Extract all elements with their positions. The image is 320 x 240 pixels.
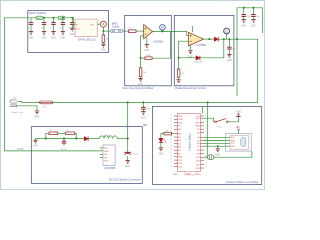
- svg-text:ON: ON: [104, 154, 108, 156]
- svg-text:LM358: LM358: [153, 40, 163, 44]
- capacitor C9: [141, 102, 152, 111]
- svg-text:GND: GND: [176, 85, 181, 87]
- node cap junction: [228, 38, 230, 40]
- svg-text:GND: GND: [51, 38, 56, 40]
- wire branch up left: [46, 133, 49, 138]
- svg-text:GND: GND: [227, 60, 232, 62]
- ground C3: [51, 32, 56, 40]
- op-amp U3 regulator IC: [103, 145, 115, 165]
- svg-text:DC-DC Buck Converter: DC-DC Buck Converter: [109, 178, 141, 182]
- svg-text:100n: 100n: [246, 16, 252, 18]
- connector J1 BNC: [111, 29, 123, 32]
- svg-text:24.5V: 24.5V: [17, 147, 24, 151]
- junction C2: [43, 17, 45, 19]
- svg-text:GND: GND: [138, 84, 143, 86]
- svg-text:5V: 5V: [143, 123, 147, 127]
- svg-text:26: 26: [170, 128, 172, 130]
- wire inverting input down: [141, 36, 144, 58]
- wire node1 node2: [46, 138, 84, 140]
- capacitor C7: [242, 8, 253, 20]
- power +5V flag: [235, 127, 240, 134]
- node out junction: [208, 38, 210, 40]
- svg-text:GND: GND: [231, 146, 236, 148]
- svg-text:18: 18: [170, 155, 172, 157]
- wire U2B out: [204, 38, 215, 40]
- wire R3 down: [140, 58, 142, 68]
- svg-text:SCL: SCL: [231, 137, 235, 139]
- svg-text:GND: GND: [174, 174, 179, 176]
- wire L1 to node3: [117, 138, 128, 140]
- fuse F1: [40, 101, 53, 109]
- node vin junction: [207, 101, 209, 103]
- wire node to R term: [102, 31, 104, 35]
- wire switch to gnd: [228, 116, 238, 121]
- wire D1 to node C: [218, 38, 237, 40]
- wire U1 pin2: [74, 28, 76, 30]
- svg-text:Non-Inverting Amplifier: Non-Inverting Amplifier: [122, 86, 153, 90]
- svg-text:12: 12: [205, 152, 207, 154]
- capacitor C5: [69, 18, 75, 30]
- U4 top pin stub: [201, 107, 203, 114]
- wire R4 to gnd: [178, 77, 180, 80]
- svg-text:GND: GND: [125, 166, 130, 168]
- svg-text:16: 16: [170, 162, 172, 164]
- ground D4: [158, 148, 163, 156]
- svg-text:1N4148: 1N4148: [194, 62, 202, 64]
- svg-text:22: 22: [170, 142, 172, 144]
- node feedback junction: [223, 38, 225, 40]
- page frame: [0, 0, 264, 189]
- node1 junction: [45, 138, 47, 140]
- resistor R5: [49, 130, 58, 134]
- svg-text:RST: RST: [178, 122, 183, 124]
- ground J2: [34, 111, 39, 119]
- node oled gnd junction: [217, 145, 219, 147]
- wire VCC rail: [4, 18, 73, 151]
- inductor FB1: [36, 16, 43, 20]
- svg-text:REF: REF: [178, 157, 183, 159]
- svg-text:100uH: 100uH: [103, 135, 110, 137]
- wire feedback down: [201, 39, 224, 58]
- wire amp out to peak block: [171, 30, 187, 32]
- block: Arduino micro-controller group: [152, 107, 261, 185]
- node rail junction: [236, 38, 238, 40]
- wire LED to gnd: [160, 142, 162, 148]
- capacitor C3: [50, 18, 56, 32]
- svg-text:19: 19: [170, 152, 172, 154]
- svg-text:M.S.: M.S.: [218, 126, 223, 128]
- node cap8 junction: [253, 7, 255, 9]
- svg-text:100n: 100n: [146, 108, 152, 110]
- ground SW1 inverted: [236, 111, 241, 116]
- svg-text:1: 1: [205, 115, 206, 117]
- wire oled gnd: [204, 145, 230, 147]
- svg-text:16: 16: [205, 167, 207, 169]
- svg-text:24: 24: [170, 136, 172, 138]
- svg-text:20: 20: [170, 149, 172, 151]
- resistor R1: [129, 28, 137, 32]
- wire 9V top rail: [237, 8, 263, 39]
- node cap7 junction: [243, 7, 245, 9]
- svg-text:Barrel_Jack: Barrel_Jack: [12, 111, 24, 114]
- wire R1 to op-amp: [136, 30, 144, 32]
- LED D4: [159, 138, 167, 143]
- svg-text:GND: GND: [60, 38, 65, 40]
- block: peak-detecting circuit group: [174, 15, 234, 85]
- svg-text:15: 15: [205, 163, 207, 165]
- capacitor C2: [41, 18, 47, 32]
- svg-text:EPM 2062S: EPM 2062S: [29, 11, 46, 15]
- capacitor C8: [251, 8, 260, 20]
- wire op-amp V- stub: [146, 37, 148, 44]
- wire U3 pin1 stub: [100, 147, 103, 149]
- junction C4: [62, 17, 64, 19]
- capacitor C10: [60, 139, 67, 151]
- svg-text:LM358: LM358: [196, 43, 206, 47]
- connector J2 barrel jack: [10, 100, 20, 107]
- wire BNC to amp block: [123, 30, 129, 32]
- label U4 pin names right: [195, 116, 200, 170]
- node buck tap: [127, 101, 129, 103]
- wire vin node1: [36, 138, 46, 140]
- svg-text:GND: GND: [215, 154, 220, 156]
- capacitor C4: [60, 18, 66, 32]
- label U4 pin numbers: [170, 115, 206, 169]
- capacitor C11 polarized: [125, 152, 139, 160]
- svg-text:Fuse: Fuse: [42, 107, 48, 109]
- svg-text:GND: GND: [178, 119, 183, 121]
- ground C5: [70, 28, 75, 36]
- node buzzer junction: [207, 156, 209, 158]
- ground C4: [60, 32, 65, 40]
- svg-text:6: 6: [205, 131, 206, 133]
- svg-text:Arduino Micro-controller: Arduino Micro-controller: [226, 180, 259, 184]
- node2 junction: [75, 138, 77, 140]
- wire oled vcc: [204, 142, 230, 144]
- label U4 pin names left: [178, 116, 183, 169]
- svg-text:27: 27: [170, 125, 172, 127]
- block: radar module group: [28, 11, 109, 53]
- svg-text:28: 28: [170, 121, 172, 123]
- inductor FB2: [58, 16, 65, 20]
- wire node3 down to C11: [127, 139, 129, 153]
- svg-text:470uF: 470uF: [132, 153, 139, 155]
- ground C2: [41, 32, 46, 40]
- ground C9: [141, 112, 146, 120]
- probe B circle: [160, 25, 166, 32]
- ground U2A: [144, 45, 149, 53]
- svg-text:GND: GND: [241, 25, 246, 27]
- svg-text:100uF: 100uF: [60, 149, 67, 151]
- svg-text:30: 30: [170, 115, 172, 117]
- wire feedback loop: [152, 31, 170, 58]
- svg-text:3: 3: [205, 121, 206, 123]
- wire D2 to left column: [179, 57, 196, 59]
- inductor L1: [100, 135, 118, 139]
- svg-text:GND: GND: [141, 117, 146, 119]
- ground R3: [138, 78, 143, 85]
- resistor R6: [66, 130, 75, 134]
- op-amp U2B LM358: [189, 32, 204, 46]
- svg-text:4: 4: [205, 125, 206, 127]
- capacitor C6 hold: [227, 39, 236, 54]
- U4 pin stubs left: [174, 116, 178, 167]
- ground OLED: [215, 146, 220, 156]
- resistor R3: [139, 68, 147, 77]
- svg-text:VIN: VIN: [104, 148, 108, 150]
- junction C5: [71, 17, 73, 19]
- wire U3 pin4 stub: [100, 157, 103, 159]
- svg-text:GND: GND: [70, 34, 75, 36]
- svg-text:GND: GND: [41, 38, 46, 40]
- svg-text:11: 11: [205, 149, 207, 151]
- wire meter to node: [102, 27, 104, 31]
- diode D3: [84, 136, 88, 141]
- svg-text:Cable: Cable: [112, 24, 120, 28]
- svg-text:EPM_6012S: EPM_6012S: [78, 38, 95, 42]
- svg-text:1M: 1M: [181, 73, 184, 75]
- ground VIN: [33, 139, 38, 148]
- wire right edge drop: [208, 39, 258, 102]
- svg-text:OUT: OUT: [104, 161, 109, 163]
- U4 pin stubs right: [201, 116, 205, 168]
- svg-text:LM2596: LM2596: [104, 166, 115, 170]
- node bias junction: [178, 57, 180, 59]
- block: non-inverting amplifier group: [125, 15, 172, 85]
- node cap9 tap: [142, 101, 144, 103]
- node3 junction: [127, 138, 129, 140]
- svg-text:17: 17: [170, 159, 172, 161]
- resistor R term: [102, 35, 109, 42]
- svg-text:GND: GND: [158, 154, 163, 156]
- wire branch down right: [75, 133, 76, 138]
- wire U3 pin3 stub: [100, 153, 103, 155]
- svg-text:GND: GND: [251, 25, 256, 27]
- capacitor C1: [28, 18, 34, 32]
- wire 9V main rail: [53, 101, 208, 103]
- wire R7 to LED: [161, 134, 164, 139]
- junction C3: [53, 17, 55, 19]
- wire oled sda: [204, 139, 230, 141]
- ground R4: [176, 80, 181, 88]
- wire U2B V- stub: [190, 45, 192, 51]
- svg-text:+5V: +5V: [235, 127, 240, 129]
- svg-text:VCC: VCC: [76, 28, 81, 30]
- meter A probe circle: [100, 21, 106, 27]
- ground C1: [28, 32, 33, 40]
- svg-text:21: 21: [170, 146, 172, 148]
- ground U2B: [188, 51, 193, 59]
- wire node to BNC: [103, 30, 110, 32]
- wire node3 up to 9V rail: [127, 102, 129, 138]
- resistor R4: [177, 69, 184, 77]
- svg-text:23: 23: [170, 139, 172, 141]
- op-amp U5 OLED display: [230, 135, 248, 149]
- svg-text:ICSP: ICSP: [186, 173, 191, 175]
- wire U1 out to meter: [97, 23, 100, 25]
- op-amp U2A LM358: [144, 24, 153, 38]
- wire oled scl: [204, 136, 230, 138]
- wire R3 to gnd: [140, 76, 142, 78]
- connector ICSP: [174, 171, 202, 176]
- ground C6: [227, 54, 232, 62]
- svg-text:5: 5: [205, 128, 206, 130]
- resistor R2 feedback: [145, 55, 152, 59]
- svg-text:GND: GND: [101, 50, 106, 52]
- svg-text:GND: GND: [34, 117, 39, 119]
- ground C11: [125, 161, 130, 169]
- wire buzzer return: [213, 151, 252, 157]
- block: DC-DC buck converter group: [31, 127, 142, 184]
- probe C circle: [224, 28, 230, 39]
- wire D3 to L1: [88, 138, 100, 140]
- wire to U1 pins: [74, 18, 76, 25]
- wire minus input to column: [179, 41, 189, 69]
- svg-text:VCC: VCC: [231, 143, 236, 145]
- switch SW1: [215, 119, 229, 129]
- wire U2B V+ stub: [192, 26, 194, 32]
- ground R term: [101, 44, 106, 51]
- svg-text:29: 29: [170, 118, 172, 120]
- svg-text:GND: GND: [28, 38, 33, 40]
- block: OLED module group: [226, 134, 252, 152]
- svg-text:15: 15: [170, 165, 172, 167]
- resistor R7: [164, 131, 172, 135]
- svg-text:GND: GND: [104, 151, 109, 153]
- diode D1: [214, 37, 218, 42]
- wire switch feed: [204, 118, 215, 122]
- wire vin drop: [207, 102, 209, 157]
- wire jack plus: [20, 101, 40, 104]
- op-amp U1 radar IC: [73, 19, 100, 36]
- node cap10 junction: [63, 138, 65, 140]
- ground C7: [241, 20, 246, 28]
- ground C8: [251, 20, 256, 28]
- node output junction: [161, 30, 163, 32]
- wire input step to plus: [187, 31, 189, 35]
- svg-text:Arduino_Nano: Arduino_Nano: [188, 133, 192, 151]
- node out junction: [102, 30, 104, 32]
- svg-text:GND: GND: [144, 50, 149, 52]
- wire gnd return long: [4, 150, 103, 152]
- wire jack gnd: [20, 106, 37, 111]
- node FB junction: [140, 57, 142, 59]
- op-amp U4 Arduino Nano: [178, 114, 201, 172]
- diode D2 feedback: [194, 56, 202, 64]
- svg-text:GND: GND: [33, 146, 38, 148]
- svg-text:OUT: OUT: [90, 24, 95, 26]
- wire R5 R6: [58, 132, 66, 134]
- wire FB to R2: [141, 57, 145, 59]
- svg-text:GND: GND: [195, 126, 200, 128]
- wire rail branch down: [236, 39, 238, 96]
- buzzer BZ1: [204, 155, 214, 160]
- wire R term to gnd: [102, 42, 104, 44]
- wire R7 to pin: [171, 133, 174, 135]
- svg-text:GND: GND: [236, 111, 241, 113]
- svg-text:1uF: 1uF: [232, 48, 236, 50]
- svg-text:VIN: VIN: [178, 116, 182, 118]
- svg-text:14: 14: [205, 159, 207, 161]
